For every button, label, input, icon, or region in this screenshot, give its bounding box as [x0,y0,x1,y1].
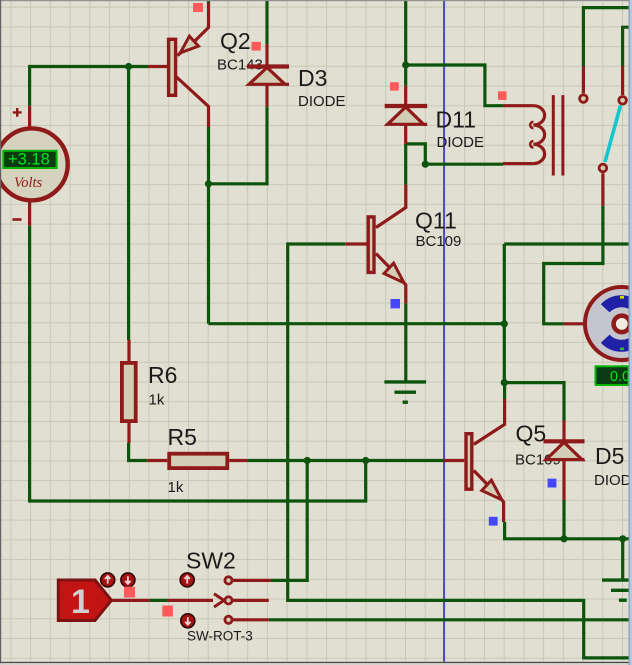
right pin stub [229,459,247,462]
svg-text:Q11: Q11 [415,208,457,234]
svg-text:DIODE: DIODE [298,93,346,110]
rotor arcs [605,301,632,338]
svg-text:SW2: SW2 [186,548,236,574]
wire: vertical bus x504 [503,244,506,383]
cathode stub [404,86,407,106]
wire: relay NO contact to right edge [623,27,629,66]
svg-text:0.0: 0.0 [610,369,630,385]
motor (right edge) [563,287,632,360]
wire: Q5 collector node to D5 cathode [504,383,564,421]
body bar [368,217,374,273]
wire: SW2 wiper green segment [150,599,168,602]
marker: red square below toggle [124,587,135,598]
svg-text:R5: R5 [168,424,197,450]
svg-text:SW-ROT-3: SW-ROT-3 [187,629,253,644]
junction bus / motor rail [501,320,508,327]
contact circle common [599,164,607,172]
anode stub [404,124,407,144]
junction bus / Q5 collector [501,379,508,386]
marker: blue square near D5 [548,479,557,488]
relay contacts [580,66,627,206]
contact circle bottom [225,616,232,623]
toggle button down 2 [181,614,195,628]
left pin stub [147,459,167,462]
middle throw pin (dead end) [232,599,269,602]
svg-text:D5: D5 [595,443,624,469]
base pin stub [148,65,167,68]
rotary switch SW2 [111,577,271,624]
wire: R5 right to Q5 base [247,459,443,462]
top throw pin [232,579,271,582]
svg-text:DIODE: DIODE [594,472,632,489]
bottom throw pin [232,618,269,621]
resistor R5 [147,454,247,468]
wire: V+ rail to Q2 base [30,67,148,106]
sheet boundary line [443,0,445,665]
svg-text:Q2: Q2 [220,28,251,54]
wire: D11 anode to relay coil bottom [406,144,503,164]
wire: Q5 emitter rail to ground [505,522,629,539]
body triangle [546,442,582,459]
marker: blue square Q11 emitter [391,299,401,308]
wire: SW2 bottom throw to right edge [269,618,629,621]
coil top pin [503,104,533,107]
toggle button up 2 [180,573,194,587]
junction emitter rail / ground stem [619,535,626,542]
collector pin [376,185,406,228]
shaft [614,316,630,332]
junction R5 net / SW2 top throw [304,457,311,464]
wire: junction down to R6 [127,67,130,341]
window borders [0,0,632,1]
contact circle NC [580,95,588,103]
svg-text:1k: 1k [149,392,165,409]
svg-text:1: 1 [71,583,90,621]
svg-text:D11: D11 [436,107,477,133]
wiper arrowhead [214,594,224,607]
body triangle [388,107,424,124]
contact circle top [225,577,232,584]
wire: Q11 base from vertical bus [288,244,629,658]
NC contact pin [582,66,585,93]
contact circle NO [619,97,627,105]
wire: ground stem bottom right [621,539,624,579]
top pin stub [127,340,130,361]
junction at Q2 base / R6 [125,63,132,70]
junction Q2 collector / D3 [205,180,212,187]
node marker 1 (red arrow tag) [58,580,111,621]
core bars [552,95,555,175]
cathode stub [265,44,268,67]
wire: D3 cathode net from top edge [265,0,268,44]
NO contact pin [621,66,624,95]
minus sign [12,218,21,221]
marker: red square near D11 [390,82,399,90]
body bar [169,39,176,95]
anode stub [562,460,565,500]
wire: long horizontal to Q5 collector node [209,322,505,325]
emitter arrow [384,263,404,283]
ground bottom right [602,580,630,600]
wire: D5 anode down [562,500,565,539]
base pin stub [444,459,465,462]
wire: relay NC contact to top edge [583,8,628,66]
diode D5 [544,421,585,501]
marker: red square near relay coil [498,91,507,100]
anode stub [265,84,268,106]
transistor Q11 (NPN BC109) [345,185,406,304]
svg-text:Volts: Volts [14,175,43,191]
bottom pin stub [127,423,130,443]
coil bottom pin [503,162,533,165]
marker: red square top [193,3,203,12]
wire: Q11 emitter to ground [404,303,407,382]
switch blade (cyan) [605,106,621,163]
diode D11 [385,86,428,144]
svg-text:+3.18: +3.18 [8,150,50,168]
body bar [466,434,472,490]
emitter pin [376,254,406,304]
wiper wire red [111,599,213,602]
wire: Q2 collector to D3 anode node [209,107,268,324]
junction D5 anode / emitter rail [560,535,567,542]
LCD readout [3,151,56,168]
wire: horizontal rail y244 to right edge [504,242,628,245]
relay coil RL1 [503,95,563,175]
wire stub: voltmeter plus [28,106,31,127]
marker: red square mid wiper [162,606,173,617]
transistor Q5 (NPN BC109) [444,399,505,522]
motor LCD readout [596,366,629,385]
wire: D11 node to relay coil top [406,65,503,106]
emitter arrow [482,480,502,500]
diode D3 [247,44,289,107]
cathode stub [562,421,565,442]
cathode bar [247,64,289,68]
plus sign [13,108,22,117]
svg-text:R6: R6 [148,362,177,388]
common pin [601,173,604,206]
junction R5 net / voltmeter minus [362,457,369,464]
marker: red square near Q2 label [252,42,261,51]
wire: top feed into Q2 emitter [207,0,210,3]
emitter arrow (points to base bar) [180,36,198,53]
svg-text:1k: 1k [168,479,184,496]
wire stub: voltmeter minus [28,203,31,226]
resistor R6 [122,340,136,443]
wire: Q5 collector green stub [503,383,506,399]
svg-text:D3: D3 [298,65,327,91]
ground below Q11 [384,382,426,402]
toggle button up 1 [101,573,115,587]
emitter pin from top [194,3,209,42]
transistor Q2 (PNP BC143) [148,3,209,127]
contact circle middle [225,597,232,604]
wire: relay common contact down and to motor [544,206,603,324]
base pin stub [345,242,366,245]
voltmeter PV1 [0,106,68,226]
wire: D11 anode down to Q11 collector [404,144,407,185]
svg-text:BC109: BC109 [416,233,462,250]
collector pin [474,399,505,444]
cathode bar [385,104,428,108]
motor pin stub [563,322,585,325]
wire: R6 bottom to R5 left [129,443,148,461]
svg-text:DIODE: DIODE [437,134,485,151]
junction at D11 top node [402,61,409,68]
svg-text:Q5: Q5 [516,421,547,447]
junction relay coil bottom branch [422,161,429,168]
marker: blue square Q5 emitter [489,517,498,526]
coil arcs [533,106,544,164]
collector pin down [177,77,209,127]
wire: D11 net vertical from top edge [404,0,407,86]
wire: voltmeter minus loop [30,226,366,501]
wire: SW2 top throw up to R5 net [271,461,307,581]
toggle button down 1 [121,573,135,587]
commutator ticks [620,296,624,299]
body triangle [249,68,285,85]
emitter pin [474,471,504,523]
cathode bar [544,439,585,443]
